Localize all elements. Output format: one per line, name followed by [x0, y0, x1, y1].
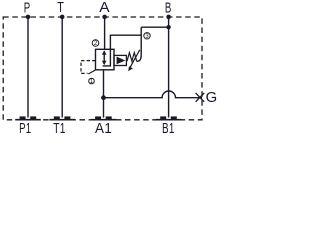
spring (zigzag): [127, 53, 137, 62]
spring adjustment arrow: [130, 50, 140, 67]
internal drain path L: [103, 49, 111, 66]
wire spring drain to B: [137, 27, 142, 61]
svg-text:1: 1: [90, 79, 94, 85]
pilot line left (dashed feedback loop): [81, 61, 96, 74]
wire gauge line with bridge over B: [104, 91, 203, 98]
node T: [60, 15, 65, 20]
svg-text:3: 3: [145, 34, 149, 40]
pilot port line to spring side: [110, 35, 141, 49]
valve body square: [96, 49, 115, 70]
item label circle 2: [92, 40, 99, 47]
wire P line: [27, 17, 29, 118]
frame (dashed enclosure): [3, 17, 202, 120]
svg-text:T: T: [57, 0, 64, 15]
wire T line: [61, 17, 63, 118]
item label circle 1: [89, 78, 95, 84]
svg-text:T1: T1: [53, 120, 65, 136]
node A1 junction: [101, 95, 106, 100]
port A1 plate connection: [91, 116, 117, 120]
svg-text:B: B: [165, 0, 172, 16]
wire A line upper: [104, 17, 106, 49]
port P1 plate connection: [15, 116, 41, 120]
svg-text:G: G: [206, 90, 217, 106]
svg-text:A: A: [99, 0, 110, 16]
internal flow arrow (double-headed): [102, 50, 107, 65]
wire A1 line lower: [103, 70, 105, 118]
svg-text:P: P: [24, 0, 31, 16]
port T1 plate connection: [49, 116, 75, 120]
node B junction: [166, 25, 170, 29]
svg-text:B1: B1: [162, 120, 175, 136]
wire B line: [168, 17, 170, 118]
svg-text:A1: A1: [95, 119, 112, 136]
plugged gauge port X: [196, 93, 205, 102]
port B1 plate connection: [156, 116, 182, 120]
item label circle 3: [144, 33, 150, 39]
wire to node B1 junction: [141, 26, 168, 28]
leader diagonal to valve corner: [88, 70, 95, 74]
node A: [102, 15, 107, 20]
svg-text:P1: P1: [19, 120, 31, 136]
node B: [166, 15, 171, 20]
node P: [26, 15, 31, 20]
pilot box with hydraulic pilot triangle: [114, 55, 126, 65]
